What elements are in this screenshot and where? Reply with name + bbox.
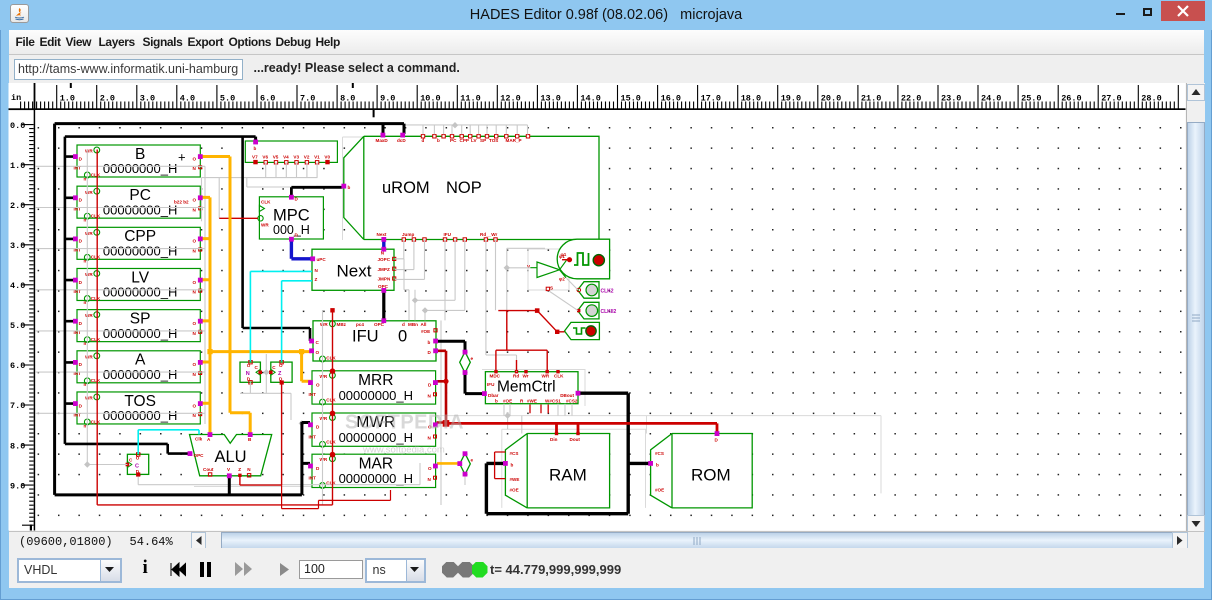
- svg-text:φ1: φ1: [559, 254, 565, 259]
- gray junction diamonds: [452, 122, 458, 128]
- svg-text:INT: INT: [309, 476, 317, 481]
- svg-text:CLK: CLK: [91, 255, 101, 260]
- svg-text:O: O: [193, 156, 197, 161]
- svg-text:n: n: [84, 300, 87, 305]
- svg-text:n: n: [84, 259, 87, 264]
- svg-text:CLK: CLK: [326, 440, 336, 445]
- svg-text:b: b: [428, 340, 431, 345]
- svg-text:V6: V6: [262, 154, 268, 159]
- svg-text:b: b: [254, 146, 257, 151]
- wire: phi1 to clockgen: [562, 259, 570, 261]
- svg-text:Din: Din: [550, 437, 558, 442]
- clock driver (2-phase): [527, 254, 567, 291]
- svg-text:WR: WR: [320, 322, 328, 327]
- component MemCtrl: [485, 370, 578, 404]
- svg-text:V3: V3: [293, 154, 299, 159]
- bottom toolbar: [9, 548, 1204, 588]
- svg-text:00000000_H: 00000000_H: [103, 244, 177, 259]
- svg-text:SP: SP: [480, 138, 486, 143]
- svg-text:Dout: Dout: [570, 437, 581, 442]
- svg-text:b: b: [511, 462, 514, 467]
- svg-text:RAM: RAM: [549, 466, 587, 485]
- wire: ALU.V to black bus: [228, 477, 231, 495]
- svg-text:20.0: 20.0: [821, 94, 841, 104]
- svg-text:28.0: 28.0: [1141, 94, 1161, 104]
- wire: clock red net: [496, 311, 547, 371]
- register A: [74, 351, 202, 387]
- svg-text:b: b: [656, 462, 659, 467]
- svg-text:JOPC: JOPC: [378, 257, 391, 262]
- svg-text:CLK: CLK: [91, 419, 101, 424]
- flag flip-flop C: [126, 453, 149, 477]
- svg-text:INT: INT: [309, 434, 317, 439]
- svg-text:12.0: 12.0: [500, 94, 520, 104]
- wire: uROM.Next to Next.N (blue): [382, 241, 385, 249]
- svg-text:CLK: CLK: [91, 378, 101, 383]
- register MPC: [258, 196, 324, 239]
- svg-text:IFU: IFU: [352, 328, 379, 346]
- flag flip-flop N: [240, 361, 262, 385]
- svg-text:WR: WR: [85, 396, 93, 401]
- wire: N flag to Next.N (cyan): [250, 271, 312, 361]
- svg-text:00000000_H: 00000000_H: [103, 326, 177, 341]
- svg-text:MPC: MPC: [273, 207, 310, 225]
- clock generator: [557, 239, 609, 279]
- svg-text:φ2: φ2: [559, 276, 565, 281]
- svg-text:24.0: 24.0: [981, 94, 1001, 104]
- svg-text:WR: WR: [261, 222, 269, 227]
- wire: red diagonal to nclk probe: [537, 311, 564, 332]
- probe CLK2: [577, 282, 614, 299]
- svg-text:22.0: 22.0: [901, 94, 921, 104]
- svg-text:CLK2: CLK2: [601, 288, 614, 294]
- svg-text:#OE: #OE: [655, 487, 664, 492]
- svg-text:CPP: CPP: [460, 138, 469, 143]
- svg-text:2.0: 2.0: [100, 94, 115, 104]
- svg-text:NOP: NOP: [446, 179, 482, 197]
- svg-text:00000000_H: 00000000_H: [103, 408, 177, 423]
- menu bar: [9, 30, 1204, 55]
- wire: IFU.D / MRR / MWR to red data bus: [437, 351, 447, 424]
- svg-text:#OE: #OE: [503, 398, 512, 403]
- wire: Z flag to Next.Z (cyan): [282, 281, 312, 362]
- junction: red bus: [443, 420, 450, 427]
- svg-text:3.0: 3.0: [10, 241, 25, 251]
- svg-text:WR: WR: [320, 416, 328, 421]
- svg-text:10.0: 10.0: [420, 94, 440, 104]
- svg-text:4.0: 4.0: [10, 281, 25, 291]
- svg-text:uPC: uPC: [317, 257, 327, 262]
- svg-text:1.0: 1.0: [10, 161, 25, 171]
- svg-text:9.0: 9.0: [10, 481, 25, 491]
- svg-text:26.0: 26.0: [1061, 94, 1081, 104]
- svg-text:Rd: Rd: [513, 374, 519, 379]
- svg-text:www.softpedia.com: www.softpedia.com: [362, 445, 445, 456]
- svg-text:MAR: MAR: [359, 455, 393, 472]
- register TOS: [74, 392, 202, 428]
- svg-text:#OE: #OE: [421, 329, 430, 334]
- svg-text:V7: V7: [252, 154, 258, 159]
- wire: V7V0.b drop: [254, 137, 257, 141]
- svg-text:#CS: #CS: [655, 451, 664, 456]
- svg-text:WR: WR: [320, 374, 328, 379]
- svg-text:13.0: 13.0: [540, 94, 560, 104]
- svg-text:WR: WR: [85, 313, 93, 318]
- wire: WR bottom jog: [282, 485, 391, 509]
- svg-text:n: n: [84, 176, 87, 181]
- gray inactive wires: [35, 125, 578, 505]
- svg-text:b22 b2: b22 b2: [174, 200, 189, 205]
- svg-text:MemCtrl: MemCtrl: [497, 379, 556, 396]
- svg-text:CLK: CLK: [326, 355, 336, 360]
- svg-text:JMPN: JMPN: [378, 277, 391, 282]
- svg-text:Rd__Wr: Rd__Wr: [480, 232, 497, 237]
- svg-text:6.0: 6.0: [260, 94, 275, 104]
- svg-text:W#CS1: W#CS1: [545, 398, 561, 403]
- svg-text:6.0: 6.0: [10, 361, 25, 371]
- wire: B-bus (orange): [200, 157, 250, 435]
- register MWR: [309, 413, 437, 447]
- ROM uROM (control store): [344, 135, 599, 242]
- register B: [74, 145, 202, 181]
- svg-text:n: n: [84, 382, 87, 387]
- svg-text:+: +: [178, 150, 186, 165]
- svg-text:25.0: 25.0: [1021, 94, 1041, 104]
- svg-text:O: O: [428, 466, 432, 471]
- wire: C-bus register stubs: [65, 157, 74, 404]
- svg-text:00000000_H: 00000000_H: [339, 388, 413, 403]
- svg-text:5.0: 5.0: [220, 94, 235, 104]
- wire: IFU.b to tri-state and MemCtrl: [437, 341, 483, 393]
- wire: MPC.D to uROM.b: [291, 187, 342, 196]
- svg-text:O: O: [193, 197, 197, 202]
- svg-text:O: O: [193, 362, 197, 367]
- svg-text:Next: Next: [337, 262, 372, 281]
- svg-text:V5: V5: [273, 154, 279, 159]
- svg-text:WR: WR: [85, 231, 93, 236]
- svg-text:11.0: 11.0: [460, 94, 480, 104]
- component IFU: [313, 321, 437, 362]
- svg-text:3.0: 3.0: [140, 94, 155, 104]
- svg-text:18.0: 18.0: [741, 94, 761, 104]
- svg-text:CLK: CLK: [554, 374, 564, 379]
- svg-text:Clk: Clk: [195, 437, 203, 442]
- svg-text:WR: WR: [85, 190, 93, 195]
- svg-text:27.0: 27.0: [1101, 94, 1121, 104]
- svg-text:9.0: 9.0: [380, 94, 395, 104]
- svg-text:00000000_H: 00000000_H: [103, 285, 177, 300]
- svg-text:OPC: OPC: [194, 453, 205, 458]
- svg-text:b: b: [348, 185, 351, 190]
- svg-text:b: b: [437, 138, 440, 143]
- wire: ALU.Z to Z-flag (red): [240, 383, 282, 485]
- svg-text:n: n: [84, 423, 87, 428]
- svg-text:d: d: [422, 138, 425, 143]
- svg-text:SOFTPEDIA: SOFTPEDIA: [345, 412, 464, 434]
- svg-text:Dbar: Dbar: [488, 393, 499, 398]
- register PC: [74, 186, 202, 222]
- svg-text:#WE: #WE: [527, 398, 537, 403]
- svg-text:7.0: 7.0: [10, 401, 25, 411]
- svg-text:0.0: 0.0: [10, 121, 25, 131]
- wire: red data bus to RAM/ROM: [446, 423, 717, 432]
- svg-text:CLK: CLK: [91, 337, 101, 342]
- svg-text:V0: V0: [324, 154, 330, 159]
- register MRR: [309, 371, 437, 405]
- svg-text:CLKII2: CLKII2: [601, 309, 617, 315]
- svg-text:IFU: IFU: [487, 382, 495, 387]
- svg-text:WR: WR: [542, 374, 550, 379]
- svg-text:V2: V2: [304, 154, 310, 159]
- wire: MPC.D to Next.uPC (blue): [291, 241, 311, 259]
- probe CLKII2: [577, 302, 617, 319]
- svg-text:CLK: CLK: [326, 397, 336, 402]
- wire: MemCtrl bottom red stubs: [530, 405, 548, 414]
- svg-text:MRR: MRR: [358, 372, 393, 389]
- svg-text:V4: V4: [283, 154, 289, 159]
- svg-text:LV: LV: [471, 138, 477, 143]
- svg-text:WR: WR: [85, 354, 93, 359]
- wire: MPC.WR red: [219, 217, 258, 219]
- svg-text:1.0: 1.0: [60, 94, 75, 104]
- wire: inner black C-bus: [65, 137, 256, 454]
- svg-text:00000000_H: 00000000_H: [103, 367, 177, 382]
- svg-text:O: O: [316, 350, 320, 355]
- svg-text:e: e: [471, 356, 474, 361]
- svg-text:00000000_H: 00000000_H: [339, 471, 413, 486]
- svg-text:00000000_H: 00000000_H: [103, 161, 177, 176]
- svg-text:14.0: 14.0: [580, 94, 600, 104]
- svg-text:in: in: [11, 93, 21, 103]
- wire: MAR.O to tri-state (orange): [437, 462, 459, 465]
- flag flip-flop Z: [269, 361, 292, 385]
- svg-text:MBn: MBn: [408, 322, 418, 327]
- svg-text:b: b: [495, 398, 498, 403]
- svg-text:#CS2: #CS2: [566, 398, 578, 403]
- svg-text:TOS: TOS: [489, 138, 498, 143]
- svg-text:dcD: dcD: [397, 138, 406, 143]
- svg-text:CLK: CLK: [91, 213, 101, 218]
- svg-text:8.0: 8.0: [340, 94, 355, 104]
- svg-text:e: e: [471, 458, 474, 463]
- svg-text:0: 0: [398, 328, 407, 346]
- tri-state driver D1: [460, 352, 474, 373]
- svg-text:S: S: [550, 285, 553, 290]
- svg-text:WR: WR: [320, 457, 328, 462]
- svg-text:PC: PC: [450, 138, 457, 143]
- svg-text:pc4: pc4: [356, 322, 364, 327]
- svg-text:MaxD: MaxD: [376, 138, 389, 143]
- svg-text:n: n: [84, 341, 87, 346]
- svg-text:17.0: 17.0: [701, 94, 721, 104]
- wire: outer black net (dcD bus): [55, 124, 404, 495]
- svg-text:uROM: uROM: [382, 179, 430, 197]
- wire: C flag to ALU.Clk (cyan): [138, 430, 199, 454]
- svg-text:All: All: [421, 322, 427, 327]
- title bar: [0, 0, 1212, 30]
- svg-text:5.0: 5.0: [10, 321, 25, 331]
- gray component bounding boxes: [194, 137, 881, 508]
- svg-text:O: O: [193, 280, 197, 285]
- status row + horizontal scrollbar: [9, 531, 1204, 550]
- wire: MemCtrl.DBout to RAM.b/ROM.b loop: [486, 393, 649, 514]
- svg-text:4.0: 4.0: [180, 94, 195, 104]
- wire: A-bus (orange): [200, 197, 210, 434]
- svg-text:MBz: MBz: [337, 322, 347, 327]
- svg-text:19.0: 19.0: [781, 94, 801, 104]
- svg-text:V1: V1: [314, 154, 320, 159]
- svg-text:O: O: [193, 239, 197, 244]
- svg-text:8.0: 8.0: [10, 441, 25, 451]
- svg-text:CLK: CLK: [261, 199, 271, 204]
- component Next (microsequencer): [312, 249, 396, 290]
- svg-text:ALU: ALU: [215, 448, 247, 466]
- svg-text:MAR_P: MAR_P: [506, 138, 522, 143]
- svg-text:INT: INT: [309, 392, 317, 397]
- top ruler: [9, 77, 1186, 531]
- svg-text:#CS: #CS: [510, 451, 519, 456]
- svg-text:IFU: IFU: [444, 232, 452, 237]
- svg-text:#WE: #WE: [510, 477, 520, 482]
- svg-text:#OE: #OE: [510, 487, 519, 492]
- grid dots: [35, 110, 1186, 531]
- svg-text:7.0: 7.0: [300, 94, 315, 104]
- wire: RAM CS/WE red: [495, 452, 506, 479]
- constant box V7..V0: [245, 141, 337, 164]
- svg-text:21.0: 21.0: [861, 94, 881, 104]
- svg-text:MDC: MDC: [490, 374, 501, 379]
- memory RAM: [505, 432, 609, 508]
- register LV: [74, 268, 202, 304]
- svg-text:23.0: 23.0: [941, 94, 961, 104]
- svg-text:Next: Next: [377, 232, 387, 237]
- svg-text:Cout: Cout: [203, 467, 214, 472]
- register CPP: [74, 227, 202, 263]
- svg-text:Wr: Wr: [523, 374, 529, 379]
- svg-text:Z: Z: [315, 277, 318, 282]
- register SP: [74, 310, 202, 346]
- svg-text:JMPZ: JMPZ: [378, 267, 390, 272]
- register MAR: [309, 454, 437, 488]
- svg-text:00000000_H: 00000000_H: [103, 202, 177, 217]
- wire: orange to IFU.O / MRR.O: [210, 352, 311, 382]
- component ALU: [190, 435, 272, 478]
- svg-text:2.0: 2.0: [10, 201, 25, 211]
- svg-text:n: n: [84, 217, 87, 222]
- svg-text:ROM: ROM: [691, 466, 731, 485]
- memory ROM: [651, 434, 753, 508]
- svg-text:O: O: [316, 382, 320, 387]
- svg-text:16.0: 16.0: [661, 94, 681, 104]
- wire: Next.OPC to IFU.OPC: [382, 292, 385, 320]
- svg-text:CLK: CLK: [91, 172, 101, 177]
- svg-text:DBout: DBout: [560, 393, 574, 398]
- wire: WR net (red): [97, 150, 332, 505]
- svg-text:WR: WR: [85, 272, 93, 277]
- svg-text:WR: WR: [85, 149, 93, 154]
- wire: black to IFU.C: [243, 137, 311, 341]
- svg-text:000_H: 000_H: [273, 223, 310, 237]
- svg-text:O: O: [193, 321, 197, 326]
- svg-text:Jump: Jump: [402, 232, 414, 237]
- toolbar: [9, 55, 1204, 83]
- junction: WR dots on M registers: [330, 368, 336, 374]
- svg-text:O: O: [193, 403, 197, 408]
- svg-text:CLK: CLK: [91, 296, 101, 301]
- svg-text:15.0: 15.0: [621, 94, 641, 104]
- tri-state driver D2: [460, 453, 474, 474]
- vertical scrollbar: [1186, 83, 1205, 531]
- clock probe (inverted): [565, 322, 600, 339]
- left ruler: [9, 110, 34, 530]
- svg-text:d: d: [402, 322, 405, 327]
- svg-text:Z: Z: [238, 467, 241, 472]
